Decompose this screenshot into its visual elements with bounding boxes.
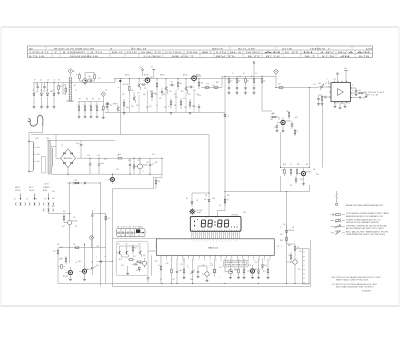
display pins comb — [192, 231, 240, 236]
wire supply col2 — [217, 192, 225, 217]
resistor R32 — [155, 178, 160, 189]
display dp dots — [231, 226, 237, 229]
wire psu out right — [154, 158, 162, 189]
svg-text:SPK: SPK — [316, 174, 319, 176]
svg-text:WITH LINE FREQ REF: WITH LINE FREQ REF — [225, 265, 247, 267]
resistor R39 — [132, 244, 137, 254]
transistor T7 — [132, 92, 135, 103]
svg-text:220: 220 — [75, 180, 78, 182]
svg-text:4k7: 4k7 — [188, 94, 191, 96]
wire tp2 drop — [102, 97, 104, 102]
svg-text:2k2: 2k2 — [126, 84, 129, 86]
svg-text:C4: C4 — [53, 90, 55, 92]
wire radio rail — [31, 134, 209, 136]
svg-text:4p7: 4p7 — [36, 91, 39, 93]
svg-text:R7: R7 — [79, 99, 81, 101]
capacitor C3 — [88, 78, 95, 83]
svg-text:R17: R17 — [181, 91, 184, 93]
svg-text:BL: BL — [303, 52, 316, 54]
svg-text:R19: R19 — [198, 95, 201, 97]
resistor R25 — [288, 111, 290, 119]
svg-text:DS1: DS1 — [243, 212, 246, 214]
transistor T5 IF can — [190, 75, 202, 83]
svg-text:LP: LP — [196, 200, 198, 202]
svg-text:C31: C31 — [97, 155, 100, 157]
svg-text:4k7: 4k7 — [73, 244, 76, 246]
wire below-ic join — [198, 266, 207, 268]
U2 pin top1 — [337, 73, 339, 83]
legend symbol row 3 — [331, 225, 346, 228]
wire if drop 1 — [128, 95, 130, 113]
resistor R06 — [89, 102, 92, 119]
resistor R36 — [58, 265, 65, 269]
wire bottom bus main — [112, 283, 310, 285]
wire left col down — [57, 256, 59, 284]
wire tp5 bus — [58, 247, 106, 249]
svg-text:5V6: 5V6 — [264, 265, 267, 267]
supply tap S2 — [151, 67, 155, 77]
resistor R21 — [212, 85, 218, 88]
svg-text:C44: C44 — [96, 265, 99, 267]
lamp label — [197, 211, 202, 214]
component value speckle — [14, 76, 353, 281]
svg-text:8k2: 8k2 — [180, 83, 183, 85]
display digit 8 (2) — [208, 220, 212, 227]
wire osc link — [63, 83, 66, 95]
switch SW contact 4 — [34, 202, 39, 205]
legend symbol row 4 — [331, 231, 346, 235]
svg-text:A. STELWERT: A. STELWERT — [63, 51, 87, 54]
svg-text:d+: d+ — [228, 116, 230, 118]
wire if drop 7 — [185, 90, 187, 113]
wire supply col1 — [208, 135, 210, 199]
svg-text:S2: S2 — [26, 199, 28, 201]
svg-text:C4: C4 — [54, 80, 56, 82]
transistor T22 driver — [289, 254, 297, 268]
svg-text:N-LB MUB-LB: N-LB MUB-LB — [70, 56, 100, 58]
wire tuner top bus — [33, 82, 115, 84]
test point diamond TP1 — [68, 69, 75, 77]
svg-text:4.19: 4.19 — [210, 265, 213, 267]
varactor diode D4 — [53, 83, 56, 109]
svg-text:2k: 2k — [101, 110, 103, 112]
svg-text:47k: 47k — [89, 105, 92, 107]
transistor T18 — [125, 246, 128, 257]
wire amp out down — [322, 102, 324, 168]
svg-text:R8: R8 — [86, 99, 88, 101]
IF value labels — [122, 74, 201, 109]
svg-text:150: 150 — [159, 98, 162, 100]
svg-text:BV TL: BV TL — [216, 56, 236, 58]
svg-text:R80: R80 — [280, 240, 283, 242]
svg-text:1k: 1k — [297, 131, 299, 133]
supply tap S1 — [140, 67, 144, 76]
wire module gnd — [126, 266, 129, 275]
svg-text:12: 12 — [236, 233, 238, 235]
resistor R26 — [294, 129, 298, 136]
coil L1 ladder — [65, 77, 74, 101]
svg-text:D8: D8 — [205, 195, 207, 197]
svg-text:0.47: 0.47 — [318, 83, 321, 85]
svg-text:220V: 220V — [35, 138, 39, 140]
diode D8 — [204, 199, 210, 205]
svg-text:B40C800: B40C800 — [64, 158, 73, 160]
wire ic drop c — [238, 258, 240, 267]
resistor R19 with capacitor — [244, 76, 249, 94]
test point diamond TP4 — [274, 69, 279, 87]
resistor R28 — [290, 168, 292, 177]
svg-text:K4 TW: K4 TW — [282, 48, 293, 50]
clock pcb top edge — [112, 237, 156, 239]
svg-text:BC148: BC148 — [63, 276, 68, 278]
svg-text:47u: 47u — [183, 98, 186, 100]
svg-text:R11: R11 — [123, 84, 126, 86]
svg-text:R33: R33 — [283, 164, 286, 166]
svg-text:C41: C41 — [52, 198, 55, 200]
resistor R16 — [189, 99, 192, 114]
svg-text:MUST MATCH ALIGNED FINE CORREC: MUST MATCH ALIGNED FINE CORRECT — [336, 285, 374, 288]
svg-text:2k2: 2k2 — [299, 251, 302, 253]
transistor T16 alarm can — [79, 265, 92, 279]
wire rail drop — [55, 135, 57, 147]
svg-text:1n: 1n — [156, 105, 158, 107]
wire bridge plus — [75, 157, 114, 159]
svg-text:220: 220 — [37, 147, 40, 149]
wire audio bus right tail — [308, 185, 310, 192]
svg-text:L2: L2 — [63, 85, 65, 87]
resistor R46 — [235, 267, 239, 277]
resistor R38 — [53, 248, 59, 256]
resistor R18 with capacitor — [236, 76, 241, 94]
svg-text:C60: C60 — [270, 119, 273, 121]
wire bridge minus — [67, 168, 69, 175]
svg-text:1N: 1N — [204, 199, 206, 201]
svg-text:BL 4: BL 4 — [230, 52, 241, 54]
wire bus jog — [114, 79, 116, 83]
resistor R15 — [198, 79, 203, 89]
svg-text:T2: T2 — [154, 52, 161, 54]
svg-text:R60: R60 — [52, 206, 55, 208]
switch SW contact 1 — [15, 202, 20, 205]
junction t14 — [69, 247, 70, 248]
wire if drop 5 — [165, 90, 167, 113]
svg-text:4k7: 4k7 — [212, 85, 215, 87]
svg-text:33k: 33k — [201, 83, 204, 85]
wire alarm bus — [58, 283, 112, 285]
svg-text:4T: 4T — [151, 67, 153, 69]
legend antenna symbol — [335, 191, 337, 206]
capacitor C14 electrolytic — [76, 140, 84, 158]
capacitor C17 — [129, 158, 131, 174]
svg-text:2k2: 2k2 — [149, 106, 152, 108]
resistor R20b — [253, 76, 256, 94]
capacitor C8 — [169, 82, 175, 87]
svg-text:BC148: BC148 — [286, 121, 291, 123]
wire q feed — [262, 90, 272, 111]
volume pot P1 — [318, 84, 331, 90]
svg-text:6p8: 6p8 — [50, 91, 53, 93]
switch SW3 actuator — [48, 194, 50, 201]
svg-text:ST-BL 4T: ST-BL 4T — [131, 48, 149, 50]
svg-text:4 TU: 4 TU — [90, 52, 104, 54]
wire link col2 — [92, 213, 106, 215]
svg-text:C32: C32 — [128, 160, 131, 162]
wire if sub bus — [78, 101, 103, 103]
wire U2 top supply — [327, 79, 332, 85]
zener D11 — [261, 258, 266, 270]
page bottom edge — [1, 305, 399, 307]
resistor R04 — [77, 102, 80, 119]
transistor T17 — [118, 246, 121, 257]
capacitor C7 — [161, 88, 163, 96]
alarm module box — [116, 241, 148, 276]
svg-text:50Hz: 50Hz — [46, 138, 50, 140]
wire psu bottom rail — [114, 173, 162, 175]
svg-text:C21: C21 — [184, 107, 187, 109]
svg-text:22: 22 — [282, 170, 284, 172]
svg-text:K 2TH: K 2TH — [216, 52, 227, 54]
resistor R49 — [286, 236, 288, 244]
svg-text:22: 22 — [290, 164, 292, 166]
resistor R20c — [261, 76, 265, 90]
svg-text:R73: R73 — [155, 261, 158, 263]
resistor R24 — [270, 114, 279, 121]
svg-text:1k: 1k — [294, 133, 296, 135]
trimmer C25 — [190, 258, 195, 283]
svg-text:C2: C2 — [40, 90, 42, 92]
thermal fuse F1 — [42, 157, 46, 174]
transistor T20 osc — [225, 267, 233, 277]
resistor R31 — [133, 158, 135, 174]
wire if drop 2 — [138, 95, 140, 113]
svg-text:P1: P1 — [325, 83, 327, 85]
mains line — [28, 141, 29, 172]
svg-text:4n7: 4n7 — [98, 78, 101, 80]
page right edge — [398, 27, 400, 306]
svg-text:R64: R64 — [78, 261, 81, 263]
program switch block — [117, 229, 146, 237]
display module DS1 outline — [190, 214, 241, 231]
svg-text:C72: C72 — [334, 103, 337, 105]
resistor R50 — [294, 244, 299, 254]
svg-text:10: 10 — [228, 233, 230, 235]
diode D4b — [224, 114, 229, 117]
svg-text:U 2LT BVL: U 2LT BVL — [165, 52, 182, 54]
svg-text:B T/L LB: B T/L LB — [29, 56, 46, 58]
capacitor C15 electrolytic — [89, 158, 94, 174]
display pin numbers — [192, 233, 238, 235]
svg-text:R76: R76 — [248, 265, 251, 267]
svg-text:R1: R1 — [58, 80, 60, 82]
svg-text:ABNETULY TBU: ABNETULY TBU — [212, 47, 224, 50]
mains cord — [28, 115, 43, 126]
svg-text:22p: 22p — [143, 94, 146, 96]
U2 pins bottom — [334, 102, 347, 109]
resistor R48 — [267, 258, 269, 277]
svg-text:1k: 1k — [75, 90, 77, 92]
capacitor C23 — [132, 263, 138, 265]
svg-text:220: 220 — [88, 76, 91, 78]
cluster under TP2a — [102, 102, 105, 119]
svg-text:S1: S1 — [14, 199, 16, 201]
wire if drop 3 — [147, 90, 149, 113]
svg-text:D3: D3 — [136, 270, 138, 272]
svg-text:T31: T31 — [125, 244, 128, 246]
psu labels — [116, 169, 145, 173]
cluster under TP2b — [107, 102, 109, 113]
wire cord to mains — [29, 126, 43, 142]
svg-text:1u: 1u — [187, 267, 189, 269]
supply tap S3 — [253, 62, 255, 77]
transistor T2 osc — [113, 104, 120, 113]
svg-text:2u2: 2u2 — [152, 164, 155, 166]
diode D5 — [291, 121, 293, 129]
svg-text:TW BV2: TW BV2 — [245, 52, 260, 54]
svg-text:19: 19 — [253, 259, 255, 261]
below ic labels — [165, 263, 247, 279]
svg-text:BK 97/4C 04 T/S TUN/B-STD 4TB: BK 97/4C 04 T/S TUN/B-STD 4TB — [54, 48, 95, 50]
resistor R03 — [94, 73, 96, 82]
svg-text:R30: R30 — [272, 113, 275, 115]
svg-text:SET B4: SET B4 — [29, 190, 34, 192]
svg-text:25V: 25V — [104, 159, 107, 161]
svg-text:1k: 1k — [75, 262, 77, 264]
U1 top pin numbers — [193, 241, 238, 243]
transistor T14 — [64, 183, 77, 230]
svg-text:4.4: 4.4 — [255, 73, 257, 75]
wire t14 down — [69, 225, 71, 263]
resistor R51 — [290, 252, 292, 262]
svg-text:T30: T30 — [117, 244, 120, 246]
svg-text:C17: C17 — [193, 90, 196, 92]
resistor R11 — [156, 79, 158, 90]
svg-text:D: D — [280, 227, 281, 229]
left col labels — [59, 257, 97, 264]
svg-text:S3: S3 — [35, 199, 37, 201]
wire j1 feed — [295, 248, 303, 250]
svg-text:A-3TB: A-3TB — [366, 47, 373, 50]
beacon lamp LP1 — [189, 208, 203, 215]
svg-text:R31: R31 — [295, 117, 298, 119]
wire sec bot — [52, 169, 68, 174]
svg-text:10k: 10k — [131, 106, 134, 108]
svg-text:B 8408 E: B 8408 E — [362, 290, 372, 292]
svg-text:TP: TP — [105, 90, 107, 92]
transformer TR1 primary — [29, 142, 40, 172]
svg-text:C1: C1 — [33, 90, 35, 92]
svg-text:11: 11 — [232, 233, 234, 235]
svg-text:68: 68 — [227, 200, 229, 202]
resistor R02 — [76, 73, 80, 82]
svg-text:12V: 12V — [152, 154, 155, 156]
capacitor C21 — [84, 182, 85, 184]
switch SW contact 8 — [48, 208, 53, 211]
svg-text:0.6: 0.6 — [243, 73, 245, 75]
legend text row 3 — [346, 224, 387, 230]
svg-text:T32: T32 — [138, 244, 141, 246]
resistor R37 — [65, 256, 67, 264]
legend antenna text — [346, 204, 383, 207]
svg-text:X1: X1 — [210, 263, 212, 265]
display top stubs — [207, 216, 217, 217]
svg-text:PARTS VALID JUNE OF BULLIDE: PARTS VALID JUNE OF BULLIDE — [336, 278, 369, 281]
capacitor C18 — [149, 158, 154, 174]
wire if drop 4 — [156, 90, 158, 113]
clock pcb bottom edge — [112, 285, 310, 287]
capacitor C2 — [43, 83, 45, 91]
svg-text:10n: 10n — [170, 82, 173, 84]
svg-text:R: R — [246, 263, 247, 265]
svg-text:8 22 L4 T7 B2: 8 22 L4 T7 B2 — [117, 226, 143, 228]
svg-text:10: 10 — [204, 259, 206, 261]
svg-text:BC148: BC148 — [87, 269, 92, 271]
svg-text:R3: R3 — [74, 85, 76, 87]
resistor R35 — [63, 214, 65, 223]
varactor diode D2 — [40, 83, 43, 109]
display pins comb lower — [192, 235, 240, 239]
page top edge — [1, 26, 399, 28]
svg-text:110: 110 — [37, 161, 40, 163]
wire switch link — [49, 206, 70, 214]
wire audio bottom bus — [225, 191, 309, 193]
svg-text:1 LL-SDK: 1 LL-SDK — [143, 56, 163, 58]
svg-text:R15: R15 — [163, 94, 166, 96]
svg-text:BF195: BF195 — [113, 104, 118, 106]
svg-text:4k7: 4k7 — [62, 226, 65, 228]
resistor R41 — [136, 261, 143, 263]
svg-text:8k2: 8k2 — [238, 81, 241, 83]
resistor R30 — [114, 155, 126, 159]
diode D10 — [257, 258, 259, 277]
resistor R05 — [83, 102, 86, 119]
resistor R23 — [354, 92, 367, 98]
wire amp input — [276, 87, 318, 89]
svg-text:R61: R61 — [63, 211, 66, 213]
transistor T19b — [138, 246, 141, 257]
svg-text:C8: C8 — [98, 99, 100, 101]
svg-text:C20: C20 — [164, 107, 167, 109]
svg-text:T: T — [297, 259, 298, 261]
test point diamond TP5 — [89, 235, 94, 248]
svg-text:X: X — [219, 277, 220, 279]
clock pcb right edge — [310, 240, 312, 286]
capacitor C22 — [91, 262, 96, 275]
svg-text:R71: R71 — [133, 256, 136, 258]
svg-text:10k: 10k — [286, 111, 289, 113]
transformer TR1 secondary — [51, 147, 54, 170]
svg-text:U1: U1 — [73, 71, 75, 73]
wire module links — [116, 246, 148, 277]
wire alarm gnds — [69, 279, 86, 281]
svg-text:22k: 22k — [166, 263, 169, 265]
svg-text:50Hz: 50Hz — [190, 279, 194, 281]
svg-text:4T: 4T — [328, 48, 330, 50]
svg-text:2k2: 2k2 — [278, 84, 281, 86]
op-amp U2 box — [331, 83, 351, 102]
svg-text:R14: R14 — [150, 91, 153, 93]
transistor T6 — [137, 79, 140, 90]
transformer TR1 core — [48, 141, 50, 175]
svg-text:TD 4010 B TL 012: TD 4010 B TL 012 — [364, 92, 384, 94]
svg-text:TP2: TP2 — [96, 246, 99, 248]
svg-text:C23: C23 — [206, 84, 209, 86]
svg-text:4k7: 4k7 — [174, 94, 177, 96]
svg-text:20: 20 — [259, 259, 261, 261]
wire osc gnd row — [229, 277, 269, 279]
svg-text:C33: C33 — [146, 162, 149, 164]
svg-text:10k: 10k — [107, 218, 110, 220]
svg-text:S 2T B: S 2T B — [44, 184, 49, 186]
